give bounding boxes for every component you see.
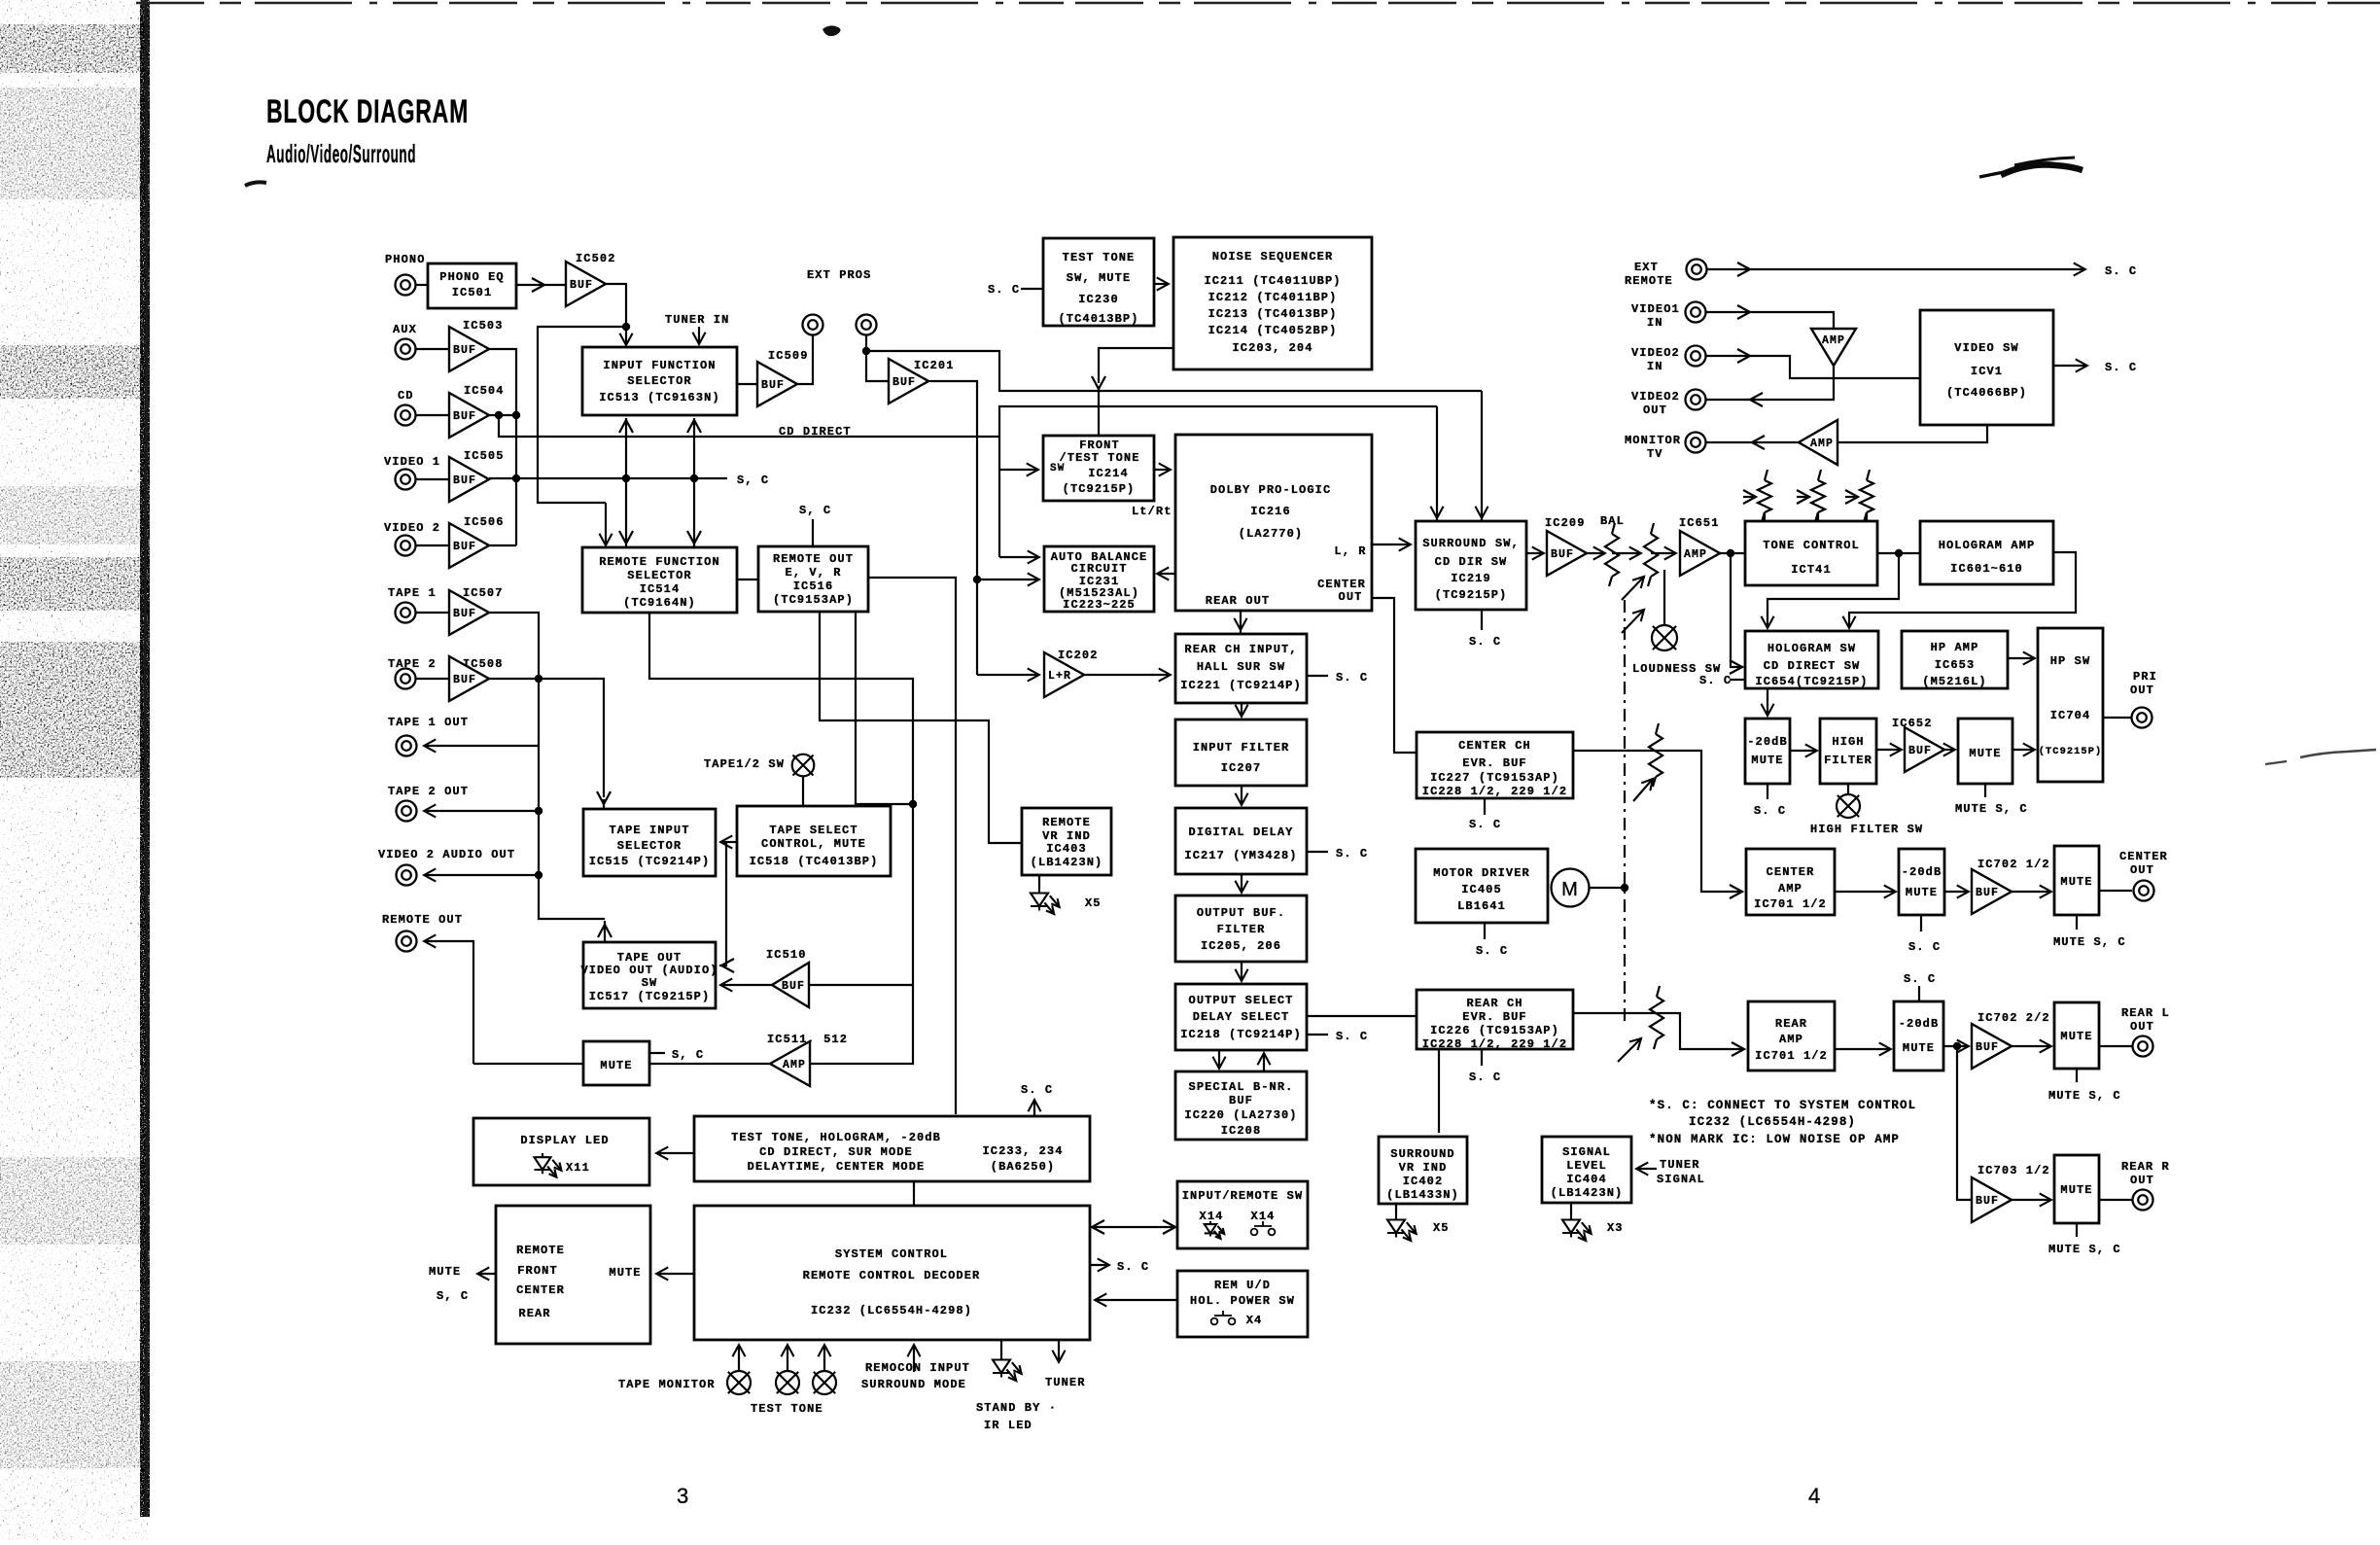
svg-text:IC228 1/2, 229 1/2: IC228 1/2, 229 1/2	[1422, 1037, 1567, 1051]
arrowhead video1 mid	[1737, 305, 1750, 319]
wire R bus stub	[1436, 515, 1438, 521]
svg-text:CD DIRECT: CD DIRECT	[779, 425, 852, 439]
block INPUT FILTER IC207	[1175, 720, 1307, 786]
wire tone out to HOLOGRAM SW top	[1767, 553, 1899, 627]
block DIGITAL DELAY IC217	[1175, 808, 1307, 874]
svg-text:BUF: BUF	[1976, 1041, 1999, 1054]
wire S.C to hologram sw	[1730, 679, 1745, 681]
block FRONT TEST TONE SW IC214	[1043, 436, 1154, 501]
wire MUTE to REAR R jack	[2099, 1199, 2132, 1201]
wire IC513 bottom bus 2	[693, 418, 695, 547]
connector PRI OUT jack	[2132, 708, 2152, 728]
wire volume pot to IC651	[1651, 552, 1675, 554]
wire HP AMP to HP SW	[2008, 657, 2034, 659]
svg-text:BUF: BUF	[453, 344, 476, 357]
wire REAR CH INPUT S.C	[1307, 675, 1328, 677]
wire tone pot arrow 3	[1845, 496, 1855, 498]
svg-text:VIDEO SW: VIDEO SW	[1954, 341, 2018, 355]
arrowhead tape out up	[598, 925, 612, 937]
svg-text:VIDEO1: VIDEO1	[1631, 302, 1680, 316]
svg-text:REMOCON INPUT: REMOCON INPUT	[865, 1361, 970, 1375]
arrowhead into HOLOGRAM SW left edge	[1730, 660, 1742, 674]
svg-text:REAR OUT: REAR OUT	[1206, 594, 1270, 608]
wire rear R mute s.c stub	[2076, 1223, 2078, 1237]
wire mute out to S.C	[478, 1273, 496, 1275]
junction S.C line at IC513 bus 1	[622, 474, 630, 482]
svg-text:IC501: IC501	[452, 286, 493, 299]
wire center -20db S.C stub	[1920, 915, 1922, 931]
wire OUTPUT SELECT to REAR CH EVR	[1307, 1015, 1417, 1017]
potentiometer BAL	[1605, 523, 1619, 586]
svg-text:IC701 1/2: IC701 1/2	[1754, 897, 1827, 911]
svg-text:(TC4013BP): (TC4013BP)	[1058, 312, 1138, 326]
wire DOLBY CENTER OUT	[1372, 598, 1417, 753]
svg-text:REAR L: REAR L	[2121, 1006, 2170, 1020]
svg-text:IC403: IC403	[1046, 842, 1087, 856]
svg-text:IC505: IC505	[464, 449, 505, 463]
wire signal level LED lead	[1570, 1203, 1572, 1215]
svg-text:PRI: PRI	[2133, 670, 2157, 684]
svg-text:AMP: AMP	[1684, 548, 1707, 561]
block -20dB MUTE (center)	[1899, 849, 1944, 915]
svg-text:SW, MUTE: SW, MUTE	[1067, 271, 1131, 285]
svg-text:S. C: S. C	[1469, 1071, 1501, 1084]
junction VIDEO1 to bus	[512, 474, 520, 482]
buffer IC652	[1905, 727, 1944, 772]
svg-text:ICV1: ICV1	[1971, 365, 2003, 378]
wire IC702 2/2 to MUTE rearL	[2011, 1045, 2050, 1047]
svg-text:S. C: S. C	[1469, 818, 1501, 831]
wire DOLBY L R out to SURROUND SW	[1372, 544, 1410, 545]
svg-text:IC402: IC402	[1403, 1175, 1444, 1188]
wire VIDEO1 jack to IC505	[416, 478, 449, 480]
svg-text:CD: CD	[398, 389, 414, 403]
wire -20dB to IC702 2/2	[1943, 1045, 1968, 1047]
wire rear L mute s.c stub	[2076, 1069, 2078, 1082]
buffer IC509	[757, 362, 797, 406]
svg-text:IC212 (TC4011BP): IC212 (TC4011BP)	[1208, 291, 1338, 304]
svg-text:IC226 (TC9153AP): IC226 (TC9153AP)	[1430, 1024, 1559, 1037]
wire IC510 to TAPE OUT box	[721, 984, 772, 986]
svg-text:CONTROL, MUTE: CONTROL, MUTE	[761, 837, 866, 851]
wire IC509 to EXT PROS left	[796, 335, 813, 384]
wire surround mode sw to SC	[823, 1346, 825, 1372]
wire NOISE SEQ output	[1099, 348, 1173, 383]
buffer IC201	[889, 359, 928, 404]
block PHONO EQ IC501	[428, 263, 516, 308]
wire node to IC201	[866, 351, 889, 381]
svg-text:FILTER: FILTER	[1217, 923, 1266, 936]
svg-text:MUTE: MUTE	[1906, 886, 1938, 899]
wire EXT PROS return down	[865, 335, 867, 351]
svg-text:VIDEO2: VIDEO2	[1631, 390, 1680, 404]
wire S.C into IC516 top	[812, 519, 814, 546]
svg-text:MUTE S, C: MUTE S, C	[2048, 1243, 2121, 1256]
svg-text:IC703 1/2: IC703 1/2	[1977, 1164, 2050, 1177]
scan artifact: top edge dashed line	[136, 2, 2380, 5]
svg-text:OUT: OUT	[1643, 404, 1667, 417]
svg-text:LEVEL: LEVEL	[1566, 1159, 1607, 1173]
arrowhead video2 mid	[1737, 349, 1750, 363]
svg-text:S. C: S. C	[1336, 1030, 1368, 1043]
wiper arrow rear	[1618, 1035, 1645, 1062]
wire IC505 output / S.C line	[489, 477, 727, 479]
svg-text:BUF: BUF	[1551, 548, 1574, 561]
wire L bus from EXT PROS node	[866, 351, 1482, 391]
wire VIDEO2 IN to VIDEO SW	[1706, 356, 1920, 378]
connector PHONO jack	[396, 275, 416, 296]
block REMOTE OUT EVR IC516	[758, 546, 868, 612]
wire IC513 to IC509	[737, 383, 757, 385]
wire IC201 output down	[927, 381, 977, 675]
arrowhead into REAR AMP	[1732, 1042, 1744, 1056]
junction IC508 and tape bus	[535, 675, 542, 683]
svg-text:MUTE S, C: MUTE S, C	[2053, 935, 2126, 949]
svg-text:BUF: BUF	[1976, 1195, 1999, 1208]
svg-text:SW: SW	[1050, 463, 1065, 474]
junction IC651 out	[1727, 549, 1734, 557]
svg-text:REAR CH: REAR CH	[1466, 997, 1522, 1010]
junction CD to bus	[512, 411, 520, 419]
wire tone pot 2 to box	[1817, 512, 1819, 521]
wire SURROUND SW to IC209	[1526, 552, 1543, 554]
wire node A down into IC513 top	[625, 327, 627, 344]
svg-text:CENTER: CENTER	[2119, 850, 2168, 863]
svg-text:BUF: BUF	[1908, 745, 1932, 757]
switch TAPE MONITOR	[727, 1371, 751, 1394]
connector VIDEO2 IN jack	[1686, 346, 1706, 367]
wire REAR AMP to -20dB	[1835, 1048, 1890, 1050]
wire DIGITAL DELAY S.C	[1307, 851, 1328, 853]
svg-text:IC504: IC504	[464, 384, 505, 398]
svg-text:IC518 (TC4013BP): IC518 (TC4013BP)	[750, 855, 879, 868]
svg-text:IN: IN	[1647, 360, 1663, 373]
svg-text:VIDEO 1: VIDEO 1	[384, 455, 440, 469]
svg-text:TUNER: TUNER	[1045, 1376, 1086, 1389]
svg-text:3: 3	[677, 1484, 689, 1508]
svg-text:TUNER: TUNER	[1660, 1158, 1700, 1172]
svg-text:VR IND: VR IND	[1399, 1161, 1448, 1175]
wire tone pot arrow 2	[1797, 496, 1806, 498]
svg-text:BUF: BUF	[453, 674, 476, 686]
block REAR AMP IC701 1/2	[1748, 1001, 1835, 1071]
svg-text:CENTER: CENTER	[1767, 865, 1815, 879]
svg-text:TEST TONE: TEST TONE	[751, 1402, 823, 1416]
LED standby IR	[993, 1355, 1025, 1384]
wire high filter sw stem	[1847, 784, 1849, 794]
wire ganged volume link (dash-dot)	[1624, 600, 1626, 1023]
svg-text:SELECTOR: SELECTOR	[627, 569, 691, 582]
arrowhead to video2 out	[1750, 393, 1763, 406]
switch input remote sw	[1251, 1221, 1276, 1235]
buffer IC504	[449, 393, 489, 438]
svg-text:S, C: S, C	[799, 504, 831, 517]
wire TAPE2 jack to IC508	[416, 678, 449, 680]
svg-text:REM U/D: REM U/D	[1214, 1279, 1271, 1292]
svg-text:INPUT FILTER: INPUT FILTER	[1193, 741, 1290, 755]
svg-text:BLOCK DIAGRAM: BLOCK DIAGRAM	[266, 93, 469, 130]
wire IC651 branch to HOLOGRAM SW	[1731, 553, 1743, 667]
wire motor driver S.C stub	[1484, 923, 1486, 939]
svg-text:INPUT/REMOTE SW: INPUT/REMOTE SW	[1182, 1189, 1304, 1203]
svg-text:MUTE: MUTE	[600, 1059, 632, 1072]
potentiometer tone 2	[1811, 470, 1825, 522]
connector TAPE 2 jack	[396, 669, 416, 689]
wire IC202 to REAR CH INPUT	[1082, 674, 1170, 676]
block MUTE (remote out)	[583, 1041, 649, 1085]
wire tape bus to TAPE2 OUT	[425, 810, 539, 812]
wire REAR CH INPUT to INPUT FILTER	[1241, 703, 1242, 716]
buffer IC209	[1547, 531, 1587, 576]
svg-text:S, C: S, C	[437, 1289, 469, 1303]
wiper arrow volume 2	[1622, 606, 1648, 633]
svg-text:SIGNAL: SIGNAL	[1657, 1173, 1705, 1186]
svg-text:X11: X11	[566, 1161, 590, 1175]
svg-text:TONE CONTROL: TONE CONTROL	[1763, 539, 1860, 552]
svg-text:S. C: S. C	[1476, 944, 1508, 958]
wire MUTE to CENTER OUT jack	[2099, 890, 2132, 892]
wire VIDEO SW S.C out	[2053, 365, 2086, 367]
wire SPECIAL BNR to OUTPUT SELECT	[1263, 1054, 1265, 1071]
svg-text:DELAYTIME, CENTER MODE: DELAYTIME, CENTER MODE	[748, 1160, 926, 1174]
svg-text:S. C: S. C	[2105, 264, 2137, 278]
wire IC516 right output to display driver	[868, 578, 956, 1114]
wire tap to IC510	[810, 984, 913, 986]
svg-text:EVR. BUF: EVR. BUF	[1462, 756, 1526, 770]
switch LOUDNESS SW	[1652, 625, 1677, 650]
svg-text:(TC9215P): (TC9215P)	[1435, 588, 1508, 602]
wire bus down into REMOTE FUNCTION top	[605, 503, 607, 544]
wire IC201 branch to AUTO BALANCE	[977, 579, 1038, 580]
svg-text:HOLOGRAM SW: HOLOGRAM SW	[1767, 642, 1856, 655]
svg-text:SYSTEM CONTROL: SYSTEM CONTROL	[835, 1247, 948, 1261]
svg-text:MUTE: MUTE	[2060, 1183, 2092, 1197]
svg-text:MUTE: MUTE	[1903, 1041, 1935, 1055]
wire tape out up stub	[604, 921, 606, 942]
wire IC503 output to bus	[489, 349, 516, 545]
svg-text:TAPE INPUT: TAPE INPUT	[609, 824, 689, 837]
wire IC516 bottom to amp bus	[856, 612, 913, 804]
svg-text:BUF: BUF	[1976, 887, 1999, 899]
wire IC209 to BAL pot	[1587, 552, 1604, 554]
wiper arrow volume 1	[1622, 573, 1648, 600]
svg-text:SURROUND: SURROUND	[1390, 1147, 1454, 1161]
svg-text:IC702 2/2: IC702 2/2	[1977, 1011, 2050, 1025]
svg-text:DELAY SELECT: DELAY SELECT	[1193, 1010, 1290, 1024]
block SYSTEM CONTROL IC232	[694, 1206, 1090, 1340]
block REMOTE VR IND IC403	[1022, 808, 1111, 875]
block HOLOGRAM AMP IC601-610	[1920, 521, 2053, 584]
svg-text:IC209: IC209	[1545, 516, 1586, 530]
svg-text:IC502: IC502	[576, 252, 616, 265]
wire TAPE1 jack to IC507	[416, 612, 449, 614]
arrowhead bus down into RF top mid	[619, 531, 633, 544]
svg-text:TEST TONE, HOLOGRAM, -20dB: TEST TONE, HOLOGRAM, -20dB	[731, 1131, 941, 1144]
wire CD DIRECT to R bus	[999, 406, 1437, 437]
wire MUTE output to REMOTE OUT	[473, 1063, 583, 1065]
connector TAPE 1 OUT jack	[397, 736, 417, 756]
svg-text:BUF: BUF	[892, 376, 916, 389]
svg-text:BUF: BUF	[782, 980, 805, 993]
arrowhead phono eq out	[532, 278, 544, 292]
svg-text:L+R: L+R	[1048, 670, 1071, 683]
connector VIDEO 2 jack	[396, 536, 416, 556]
svg-text:BUF: BUF	[453, 474, 476, 487]
svg-text:S. C: S. C	[1117, 1260, 1149, 1274]
svg-text:IC701 1/2: IC701 1/2	[1755, 1049, 1828, 1063]
potentiometer center level	[1649, 723, 1662, 787]
block REMOTE FUNCTION SELECTOR IC514	[582, 547, 737, 613]
wire IC504 output	[489, 414, 516, 416]
svg-text:HOL. POWER SW: HOL. POWER SW	[1190, 1294, 1295, 1308]
junction EXT PROS node	[862, 347, 870, 355]
buffer IC508	[449, 656, 489, 701]
block AUTO BALANCE CIRCUIT IC231	[1044, 546, 1154, 612]
wire MUTE to REMOTE OUT jack	[425, 941, 473, 1064]
potentiometer rear level	[1650, 986, 1663, 1049]
svg-text:PHONO: PHONO	[385, 253, 426, 266]
junction IC201 to AUTO BALANCE	[973, 576, 981, 583]
wire IC506 output to bus	[489, 544, 516, 546]
svg-text:CENTER: CENTER	[516, 1283, 565, 1297]
wire IC514 to IC516	[737, 579, 758, 580]
potentiometer tone 3	[1860, 470, 1873, 522]
buffer IC510	[772, 963, 809, 1007]
svg-text:IC517 (TC9215P): IC517 (TC9215P)	[589, 990, 711, 1003]
wire IC516 bottom2 to remote VR	[820, 612, 1021, 843]
wire bracket arm to FRONT TEST TONE SW	[999, 469, 1037, 471]
svg-text:HIGH: HIGH	[1832, 735, 1864, 749]
LED remote VR x5	[1031, 889, 1063, 917]
svg-text:(TC4066BP): (TC4066BP)	[1946, 386, 2027, 400]
svg-text:MUTE S, C: MUTE S, C	[2048, 1089, 2121, 1103]
svg-text:S. C: S. C	[1021, 1083, 1053, 1097]
wire node A branch to left bus	[538, 327, 626, 503]
svg-text:EXT: EXT	[1634, 261, 1659, 274]
svg-text:IC203, 204: IC203, 204	[1232, 341, 1312, 355]
connector VIDEO1 IN jack	[1686, 302, 1706, 323]
wire front mute S.C stub	[1984, 784, 1986, 797]
block TAPE OUT VIDEO OUT SW IC517	[580, 942, 717, 1008]
svg-text:REMOTE OUT: REMOTE OUT	[773, 552, 854, 566]
svg-text:(TC9215P): (TC9215P)	[2039, 746, 2103, 757]
svg-text:/TEST TONE: /TEST TONE	[1059, 451, 1139, 465]
wire TEST TONE to NOISE SEQUENCER	[1154, 283, 1168, 285]
svg-text:NOISE SEQUENCER: NOISE SEQUENCER	[1212, 250, 1334, 263]
block MUTE (rear L out)	[2054, 1002, 2099, 1069]
svg-text:*NON MARK IC: LOW NOISE OP AMP: *NON MARK IC: LOW NOISE OP AMP	[1649, 1133, 1900, 1146]
wire rear out stub	[1240, 627, 1242, 634]
block VIDEO SW ICV1	[1920, 310, 2053, 425]
svg-text:IC506: IC506	[464, 515, 505, 529]
svg-text:DIGITAL DELAY: DIGITAL DELAY	[1189, 825, 1294, 839]
svg-text:HIGH FILTER SW: HIGH FILTER SW	[1810, 823, 1923, 836]
connector MONITOR TV jack	[1686, 433, 1706, 453]
block REMOTE FRONT CENTER REAR mute	[496, 1206, 650, 1344]
wire S.C up from TT box	[1033, 1101, 1035, 1116]
wire TAPE SELECT to TAPE INPUT SELECTOR	[721, 841, 737, 843]
svg-text:BUF: BUF	[453, 541, 476, 553]
wire BAL to volume pot	[1612, 552, 1640, 554]
svg-text:BAL: BAL	[1600, 514, 1625, 528]
svg-text:AMP: AMP	[1810, 438, 1834, 450]
svg-text:MUTE: MUTE	[1969, 747, 2001, 760]
buffer IC502	[566, 262, 606, 306]
wire branch to IC703	[1957, 1046, 1972, 1200]
svg-text:IC651: IC651	[1679, 516, 1720, 530]
potentiometer tone 1	[1758, 470, 1771, 522]
svg-text:TAPE 2: TAPE 2	[388, 657, 437, 671]
svg-text:IC514: IC514	[640, 582, 681, 596]
svg-text:S. C: S. C	[1699, 674, 1732, 687]
block SURROUND VR IND IC402	[1379, 1137, 1467, 1204]
wire OUTPUT SELECT S.C	[1307, 1034, 1328, 1036]
svg-text:(M5216L): (M5216L)	[1922, 675, 1986, 688]
svg-text:CD DIRECT SW: CD DIRECT SW	[1764, 659, 1861, 673]
svg-text:OUT: OUT	[2130, 684, 2154, 697]
wire -20dB mute S.C stub	[1767, 784, 1768, 799]
block HOLOGRAM SW CD DIRECT SW IC654	[1745, 631, 1878, 688]
arrowhead tone pot 1	[1743, 490, 1756, 504]
LED signal level x3	[1562, 1215, 1594, 1244]
wire TONE CONTROL to HOLOGRAM AMP	[1877, 552, 1920, 554]
svg-text:MOTOR DRIVER: MOTOR DRIVER	[1433, 866, 1530, 880]
svg-text:(LB1423N): (LB1423N)	[1551, 1186, 1624, 1200]
svg-text:TAPE MONITOR: TAPE MONITOR	[618, 1378, 716, 1391]
connector VIDEO 2 AUDIO OUT jack	[397, 865, 417, 886]
buffer IC702 1/2	[1972, 869, 2012, 914]
svg-text:S. C: S. C	[1469, 635, 1501, 649]
amplifier IC202 L+R	[1044, 652, 1084, 697]
svg-text:FILTER: FILTER	[1824, 754, 1872, 767]
svg-text:IC515 (TC9214P): IC515 (TC9214P)	[589, 855, 711, 868]
svg-text:IC653: IC653	[1935, 658, 1976, 672]
svg-text:MUTE: MUTE	[2060, 1030, 2092, 1043]
svg-text:M: M	[1561, 879, 1579, 900]
block REM U/D HOL POWER SW	[1177, 1271, 1308, 1337]
svg-text:IC507: IC507	[463, 586, 504, 600]
svg-text:TUNER IN: TUNER IN	[665, 313, 729, 327]
block HP SW IC704	[2038, 628, 2103, 782]
svg-text:IC228 1/2, 229 1/2: IC228 1/2, 229 1/2	[1422, 785, 1567, 798]
arrowhead into TAPE INPUT SELECTOR top	[597, 791, 611, 804]
svg-text:LB1641: LB1641	[1457, 899, 1506, 913]
wire INPUT FILTER to DIGITAL DELAY	[1241, 786, 1242, 804]
svg-text:AMP: AMP	[1822, 334, 1845, 347]
junction amp bus	[909, 800, 917, 808]
svg-text:OUT: OUT	[2130, 1174, 2154, 1187]
wire SC to standby LED	[1000, 1340, 1002, 1355]
connector EXT PROS return	[857, 315, 877, 335]
block REAR CH INPUT HALL SUR SW IC221	[1175, 634, 1307, 703]
svg-text:IC207: IC207	[1221, 761, 1262, 775]
wire TAPE SELECT line down to IC517	[719, 842, 726, 966]
svg-text:SW: SW	[642, 976, 658, 990]
svg-text:IC652: IC652	[1892, 717, 1933, 730]
svg-text:IC213 (TC4013BP): IC213 (TC4013BP)	[1208, 307, 1338, 321]
wire IC201 vert to IC202	[977, 674, 1038, 676]
junction motor gang	[1621, 884, 1628, 892]
svg-text:VIDEO 2 AUDIO OUT: VIDEO 2 AUDIO OUT	[378, 848, 515, 861]
wire REAR CH out through pot	[1573, 1013, 1744, 1049]
svg-text:X14: X14	[1251, 1210, 1276, 1223]
block NOISE SEQUENCER IC211-214	[1173, 237, 1372, 369]
svg-text:DISPLAY LED: DISPLAY LED	[520, 1134, 609, 1147]
svg-text:CIRCUIT: CIRCUIT	[1070, 562, 1127, 576]
scan artifact: smudge right of PRI OUT	[2265, 750, 2376, 764]
svg-text:IC221 (TC9214P): IC221 (TC9214P)	[1180, 679, 1302, 692]
svg-text:(LA2770): (LA2770)	[1239, 527, 1303, 541]
